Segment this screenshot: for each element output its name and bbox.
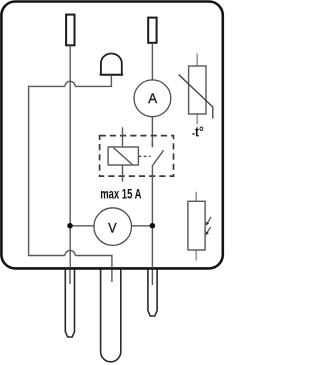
wire: ammeter to contact	[151, 117, 153, 147]
thermistor R1	[189, 66, 206, 114]
terminal T1 (top left)	[66, 15, 74, 46]
contact blade	[151, 140, 153, 147]
wire: buzzer to left rail	[75, 76, 111, 87]
coil K1 bottom lead	[122, 165, 124, 182]
pin 1 (left bottom blade)	[65, 268, 74, 337]
photoresistor R2	[188, 201, 205, 250]
pin 3 (right bottom blade)	[148, 268, 157, 316]
svg-text:max 15 A: max 15 A	[100, 186, 141, 202]
svg-text:V: V	[108, 219, 117, 235]
wire: left rail	[29, 86, 65, 255]
light arrow 1	[208, 217, 212, 223]
wire hop over vertical at (70,255.5)	[65, 250, 75, 255]
relay body outline	[1, 2, 222, 269]
photoresistor R2 leads	[195, 192, 197, 202]
wire into pin 3	[151, 264, 153, 285]
label -t°	[192, 133, 195, 134]
voltmeter U2	[70, 225, 94, 227]
ammeter U1	[134, 80, 171, 117]
actuation dashed link	[139, 155, 151, 157]
buzzer B1 (dome)	[101, 53, 122, 74]
wire into pin 1	[69, 264, 71, 284]
wire: T2 down to ammeter	[151, 43, 153, 80]
relay K1 dashed enclosure	[100, 136, 174, 177]
svg-text:t°: t°	[195, 124, 204, 139]
coil K1 top lead	[122, 127, 124, 147]
wire into pin 2	[111, 264, 113, 282]
wire: contact down to pin 3	[151, 165, 153, 268]
light arrow 2	[207, 227, 210, 233]
junction node left	[67, 223, 73, 229]
junction node right	[150, 223, 156, 229]
wire hop over vertical at (70,86.4)	[65, 81, 75, 86]
thermistor R1 leads	[196, 53, 198, 66]
wire: T1 down to pin 1 (passes under hops)	[69, 45, 71, 268]
wire: to middle pin	[75, 256, 112, 269]
svg-text:A: A	[148, 90, 157, 106]
pin 2 (middle bottom blade)	[101, 268, 121, 362]
coil K1	[108, 147, 138, 165]
terminal T2 (top right)	[148, 18, 156, 43]
